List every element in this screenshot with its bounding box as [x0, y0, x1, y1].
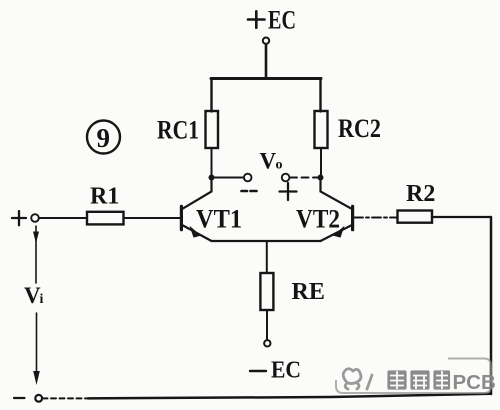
wire right drop — [319, 79, 321, 112]
wire RC1 to node — [211, 149, 213, 178]
node bottom-left terminal — [35, 395, 42, 402]
svg-text:9: 9 — [97, 123, 111, 153]
wire bottom rail dashed start — [43, 397, 89, 399]
power label +EC — [248, 11, 265, 27]
label plus under right terminal — [280, 183, 297, 200]
arrow Vi lower — [36, 313, 38, 375]
wire RE to -EC — [266, 310, 268, 340]
terminal +EC — [263, 38, 269, 44]
svg-text:R1: R1 — [90, 184, 119, 210]
svg-text:i: i — [40, 292, 44, 307]
wire R1 to VT1 base — [124, 217, 181, 219]
wire VT2 base to R2 (dash-dot) — [354, 217, 398, 219]
svg-text:RC1: RC1 — [157, 116, 199, 145]
svg-text:R2: R2 — [406, 181, 435, 207]
svg-text:EC: EC — [268, 6, 296, 35]
svg-text:EC: EC — [271, 358, 301, 384]
label circled 9 — [87, 121, 120, 154]
node left collector junction — [209, 175, 215, 181]
node right collector junction — [318, 175, 324, 181]
wire emitter stem — [266, 241, 268, 273]
resistor R2 — [398, 211, 433, 223]
wire node to Vo left terminal — [212, 177, 244, 179]
resistor RC1 — [206, 111, 219, 148]
resistor R1 — [87, 212, 124, 225]
watermark box — [336, 359, 491, 394]
svg-text:VT1: VT1 — [196, 205, 242, 234]
resistor RE — [260, 273, 273, 310]
watermark logo — [343, 369, 372, 389]
terminal -EC — [264, 340, 270, 346]
wire emitter rail — [212, 240, 321, 242]
node input terminal — [31, 214, 39, 222]
svg-text:V: V — [260, 149, 277, 174]
wire input to R1 — [39, 217, 87, 219]
wire Vo right terminal to node (dashed) — [290, 177, 318, 179]
svg-text:PCB: PCB — [453, 371, 496, 394]
svg-text:VT2: VT2 — [296, 205, 340, 234]
resistor RC2 — [315, 111, 328, 148]
wire R2 to right corner — [432, 216, 491, 218]
svg-text:RC2: RC2 — [338, 114, 381, 143]
watermark text — [387, 370, 496, 394]
wire right vertical — [490, 217, 493, 394]
transistor VT2 — [321, 178, 353, 242]
wire +EC stem — [265, 44, 268, 78]
svg-text:V: V — [24, 283, 41, 308]
label plus input — [12, 211, 26, 225]
node Vo right terminal — [282, 174, 290, 182]
wire RC2 to node — [320, 149, 322, 178]
label minus dashes under left terminal — [242, 190, 257, 193]
svg-text:RE: RE — [292, 279, 325, 305]
arrow Vi upper — [35, 226, 37, 283]
wire bottom rail — [88, 394, 491, 399]
svg-text:o: o — [276, 158, 283, 173]
power label -EC — [250, 370, 266, 372]
node Vo left terminal — [244, 174, 252, 182]
transistor VT1 — [181, 178, 211, 242]
wire top rail — [211, 77, 321, 80]
label minus input — [14, 397, 25, 399]
wire left drop — [210, 79, 212, 112]
